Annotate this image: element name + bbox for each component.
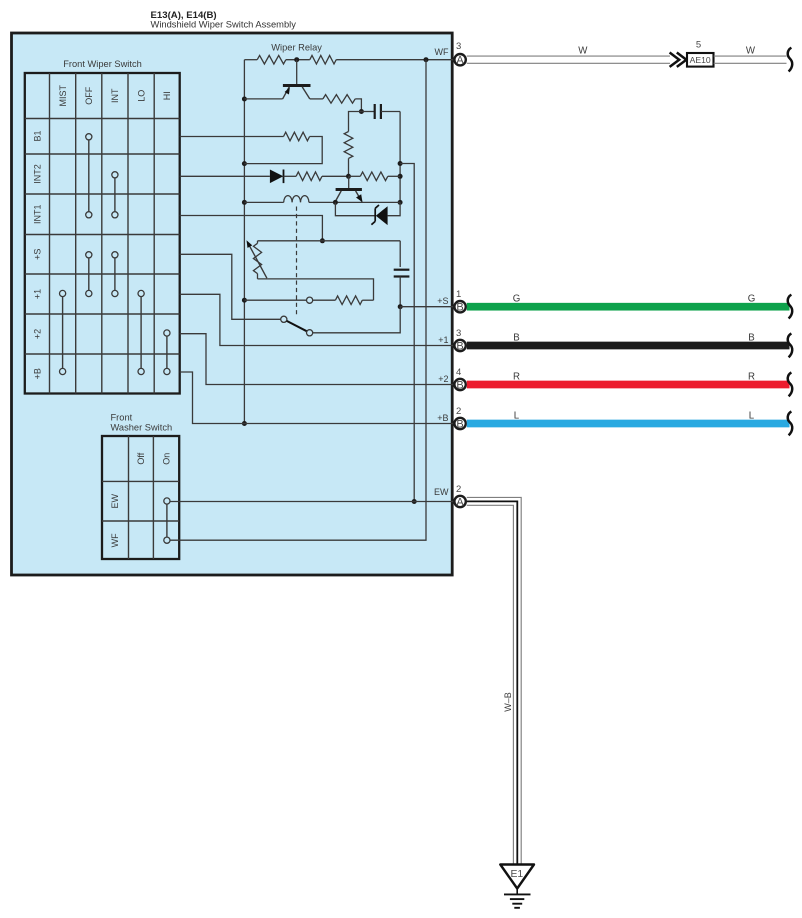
svg-text:B: B	[456, 418, 463, 430]
contact	[307, 297, 313, 303]
resistor R3	[323, 95, 355, 104]
node	[320, 238, 325, 243]
wire: +S output	[400, 306, 455, 308]
terminal +1 pin 3 (connector B)	[438, 328, 466, 353]
svg-text:L: L	[514, 410, 520, 421]
svg-text:L: L	[749, 410, 755, 421]
svg-text:W: W	[746, 46, 756, 57]
svg-text:2: 2	[456, 406, 461, 417]
svg-text:AE10: AE10	[690, 55, 711, 65]
svg-text:G: G	[513, 294, 521, 305]
wire	[313, 299, 336, 301]
wire: Q1 emitter to rail	[244, 98, 282, 100]
wire	[348, 158, 350, 176]
wire: pot bottom rail	[258, 279, 374, 300]
node	[398, 200, 403, 205]
svg-text:3: 3	[456, 41, 461, 52]
mechanical link (dashed)	[296, 207, 298, 317]
terminal +2 pin 4 (connector B)	[438, 367, 466, 392]
terminal +S pin 1 (connector B)	[437, 289, 466, 314]
zener diode ZD1	[335, 202, 400, 225]
wire: top WF rail	[244, 59, 257, 61]
wire R (+2)	[467, 371, 792, 396]
wire	[349, 175, 361, 177]
washer column labels Off On	[136, 452, 171, 464]
wire: park switch to +S node	[313, 307, 401, 333]
svg-text:B: B	[456, 302, 463, 314]
svg-text:W: W	[578, 46, 588, 57]
svg-text:INT: INT	[110, 88, 120, 103]
front washer switch title	[111, 413, 173, 433]
capacitor C2	[394, 241, 410, 307]
node	[242, 97, 247, 102]
node	[242, 421, 247, 426]
diode D1	[270, 170, 296, 184]
wire: INT1 row to potentiometer rail	[180, 216, 323, 241]
terminal +B pin 2 (connector B)	[437, 406, 466, 431]
node	[333, 200, 338, 205]
svg-text:+S: +S	[437, 296, 448, 306]
svg-text:2: 2	[456, 484, 461, 495]
resistor R4	[344, 132, 353, 159]
switch contact bar MIST +1-+B	[60, 290, 66, 374]
terminal EW pin 2 (connector A)	[434, 484, 466, 509]
transistor Q1 (PNP)	[283, 60, 311, 99]
wire B (+1)	[467, 332, 792, 357]
svg-text:1: 1	[456, 289, 461, 300]
node: WF branch junction	[424, 57, 429, 62]
wire	[349, 112, 362, 132]
svg-text:R: R	[748, 371, 755, 382]
resistor R5	[284, 132, 310, 141]
resistor R7	[360, 172, 388, 181]
wire: top rail to WF pin	[336, 59, 455, 61]
wire	[322, 175, 349, 177]
wire	[310, 98, 323, 100]
svg-text:+1: +1	[32, 289, 42, 299]
switch contact bar INT INT2-INT1	[112, 172, 118, 218]
wire: EW row	[170, 501, 455, 503]
svg-text:WF: WF	[435, 47, 449, 57]
wire: INT2 row	[180, 175, 270, 177]
node: rail junction	[294, 57, 299, 62]
svg-text:Washer Switch: Washer Switch	[111, 422, 173, 432]
svg-text:Front: Front	[111, 413, 133, 423]
wire: +1 row	[180, 294, 455, 345]
svg-text:A: A	[456, 496, 464, 508]
node	[398, 174, 403, 179]
resistor R1	[257, 55, 286, 64]
splice chevrons	[670, 53, 687, 67]
svg-text:5: 5	[696, 39, 701, 50]
connector AE10 pin 5	[687, 39, 714, 66]
front washer switch table grid	[102, 436, 179, 559]
svg-text:3: 3	[456, 328, 461, 339]
wire	[362, 299, 373, 301]
svg-text:Wiper Relay: Wiper Relay	[271, 43, 322, 53]
wire	[244, 137, 322, 164]
transistor Q2 (NPN)	[335, 176, 362, 202]
row labels B1 INT2 INT1 +S +1 +2 +B	[32, 130, 42, 379]
svg-text:B: B	[456, 340, 463, 352]
svg-text:A: A	[456, 55, 464, 67]
node	[242, 161, 247, 166]
wire: right column	[399, 112, 401, 203]
wire G (+S)	[467, 294, 792, 319]
front wiper switch table grid	[25, 73, 180, 394]
svg-text:B: B	[456, 379, 463, 391]
wire	[355, 99, 361, 112]
wire	[388, 175, 400, 177]
wire: +B row	[180, 372, 455, 424]
wire: WF washer column	[170, 60, 426, 541]
capacitor C1	[361, 104, 400, 119]
wire: +S row feed	[180, 254, 281, 319]
resistor R6	[296, 172, 322, 181]
svg-text:OFF: OFF	[84, 86, 94, 104]
resistor R8	[335, 296, 362, 305]
wiper park switch SW1	[281, 316, 313, 336]
wire	[286, 59, 310, 61]
node	[398, 161, 403, 166]
wire: B1 row feedback loop	[180, 136, 284, 138]
svg-text:R: R	[513, 371, 520, 382]
svg-text:LO: LO	[136, 90, 146, 102]
switch contact bar HI +2-+B	[164, 330, 170, 375]
resistor R2	[310, 55, 336, 64]
node	[346, 174, 351, 179]
wire: left supply rail	[243, 60, 245, 424]
svg-text:INT1: INT1	[32, 204, 42, 224]
wire W-B (EW to ground E1)	[467, 497, 521, 864]
svg-text:G: G	[748, 294, 756, 305]
svg-text:B: B	[748, 332, 754, 343]
terminal WF pin 3 (connector A)	[435, 41, 466, 67]
svg-text:INT2: INT2	[32, 164, 42, 184]
svg-text:Front Wiper Switch: Front Wiper Switch	[63, 59, 142, 69]
node	[398, 304, 403, 309]
switch contact bar INT +S-+1	[112, 252, 118, 297]
switch contact bar LO +1-+B	[138, 290, 144, 374]
svg-text:Windshield Wiper Switch Assemb: Windshield Wiper Switch Assembly	[151, 20, 297, 30]
washer row labels EW WF	[110, 493, 120, 547]
wire W (WF to AE10)	[467, 46, 670, 64]
svg-text:+2: +2	[438, 374, 448, 384]
svg-text:EW: EW	[110, 493, 120, 508]
wire: sample-hold row	[244, 299, 306, 301]
wire: pot top rail	[258, 240, 401, 242]
svg-text:B: B	[513, 332, 519, 343]
node	[412, 499, 417, 504]
wire: to +1 feed column	[400, 164, 414, 502]
svg-text:+1: +1	[438, 335, 448, 345]
inductor L1 (relay coil)	[244, 196, 400, 205]
node	[242, 200, 247, 205]
ground E1	[500, 865, 534, 908]
wire L (+B)	[467, 410, 792, 435]
potentiometer VR1	[247, 240, 267, 279]
svg-text:4: 4	[456, 367, 461, 378]
svg-text:E1: E1	[510, 869, 523, 880]
column header labels MIST OFF INT LO HI	[58, 84, 172, 106]
wire W (AE10 onward)	[714, 46, 793, 72]
svg-text:W–B: W–B	[503, 692, 513, 712]
node	[242, 298, 247, 303]
svg-text:EW: EW	[434, 487, 449, 497]
svg-text:HI: HI	[162, 91, 172, 100]
svg-text:On: On	[162, 453, 172, 465]
svg-text:+S: +S	[32, 249, 42, 260]
svg-text:+B: +B	[32, 368, 42, 379]
svg-text:+2: +2	[32, 329, 42, 339]
node	[359, 109, 364, 114]
svg-text:+B: +B	[437, 413, 448, 423]
svg-text:Off: Off	[136, 452, 146, 464]
svg-text:B1: B1	[32, 130, 42, 141]
washer switch contact bar On EW-WF	[164, 498, 170, 543]
switch contact bar OFF +S-+1	[86, 252, 92, 297]
wiper switch assembly box E13/E14	[12, 33, 453, 575]
wire: +2 row	[180, 334, 455, 385]
svg-text:MIST: MIST	[58, 84, 68, 106]
svg-text:WF: WF	[110, 533, 120, 547]
switch contact bar OFF B1-INT1	[86, 134, 92, 218]
